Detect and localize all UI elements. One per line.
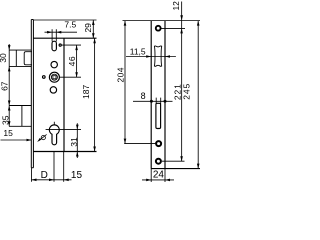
latch bolt front view: [154, 46, 161, 67]
dim 24 line: [142, 179, 174, 181]
arrows dim 35 inside: [8, 106, 11, 111]
follower outer circle: [49, 72, 59, 82]
arrows dim 24 outside: [146, 179, 151, 182]
svg-text:D: D: [41, 170, 48, 181]
svg-text:29: 29: [83, 23, 93, 33]
dim 46 extension from follower: [59, 76, 81, 78]
dim 245 line: [197, 21, 199, 169]
dim 11.5 line: [126, 56, 151, 58]
svg-text:11,5: 11,5: [130, 47, 146, 57]
dim 7.5 extension lines: [52, 29, 56, 41]
arrows dim D inside: [32, 179, 37, 182]
deadbolt slot front view: [156, 103, 161, 128]
svg-text:8: 8: [141, 91, 146, 101]
middle screw hole: [156, 141, 161, 146]
deadbolt side view: [9, 106, 32, 127]
dim 46 extension from small circle: [62, 44, 81, 46]
svg-text:7.5: 7.5: [64, 20, 76, 30]
latch slot: [52, 41, 56, 51]
dim 31 line: [76, 123, 78, 158]
right view strip bottom with 245 extension: [151, 168, 200, 170]
dim D and 15 bottom line: [32, 179, 72, 181]
svg-text:15: 15: [3, 128, 13, 138]
dim 221 line: [181, 2, 183, 162]
arrows dim 7.5 outside: [47, 31, 52, 34]
bottom extension case right: [63, 152, 65, 182]
svg-text:204: 204: [115, 67, 125, 82]
dim 204 line: [124, 21, 126, 144]
centerline through latch front: [151, 56, 176, 58]
dim 7.5 line: [45, 31, 78, 33]
faceplate side view: [31, 20, 33, 168]
case right edge: [63, 38, 65, 151]
dots dim 8: [150, 100, 153, 103]
arrows dim 204 inside: [124, 21, 127, 26]
arrows dim 31 outside: [76, 125, 79, 130]
case top edge: [33, 37, 96, 39]
dim 29 and 187 lines: [93, 20, 94, 152]
diameter symbol near keyhole: [39, 134, 47, 141]
arrows dim 29 outside: [92, 20, 95, 25]
arrow dim 15 bottom outside: [64, 179, 69, 182]
arrows dim 11.5: [146, 55, 151, 58]
svg-text:15: 15: [71, 170, 83, 181]
svg-text:30: 30: [0, 53, 8, 63]
keyhole euro profile: [49, 125, 59, 145]
svg-text:46: 46: [67, 56, 77, 66]
small circle near latch slot: [59, 44, 61, 46]
diameter leader arrow: [37, 138, 41, 142]
bottom extension cylinder axis: [53, 152, 55, 182]
right view top line with 245/204 extensions: [123, 20, 201, 22]
dim 8 line: [133, 98, 173, 104]
case bottom edge: [33, 151, 96, 153]
dim 24 extension lines: [151, 169, 165, 182]
follower inner circle: [51, 74, 57, 80]
top screw hole: [156, 26, 161, 31]
arrows dim 221 inside: [180, 28, 183, 33]
dim 12 / 221 top extension from top hole: [161, 27, 185, 29]
arrow dim 15 left: [27, 139, 32, 142]
small screw hole left of follower: [43, 76, 46, 79]
dim 30/67/35 line: [8, 44, 10, 126]
arrows dim 46 inside: [75, 45, 78, 50]
follower square spindle hole: [53, 76, 56, 79]
arrows dim 30 outside: [8, 45, 11, 50]
dim 15 left line: [1, 139, 32, 141]
svg-text:187: 187: [81, 85, 91, 99]
dim 46 line: [76, 45, 78, 77]
svg-text:35: 35: [0, 115, 10, 125]
svg-text:245: 245: [181, 83, 191, 100]
dim 221 bottom extension from bottom hole: [162, 160, 185, 162]
svg-text:67: 67: [0, 81, 9, 91]
latch bolt side view: [9, 50, 32, 66]
bottom screw hole: [156, 159, 161, 164]
hole below follower: [50, 87, 56, 93]
hole above follower: [51, 61, 57, 67]
svg-text:24: 24: [153, 169, 165, 180]
dim 31 extension from keyhole center: [46, 122, 81, 130]
arrows dim 245 inside: [197, 21, 200, 26]
right view faceplate strip: [151, 21, 165, 169]
svg-text:12: 12: [171, 1, 181, 11]
arrow dim 12 outside: [180, 15, 183, 20]
top extension line from faceplate top: [33, 19, 96, 21]
arrows dim 187 inside: [93, 38, 96, 43]
svg-text:31: 31: [69, 137, 79, 147]
arrow dim 67 bottom inside: [8, 101, 11, 106]
bottom extension faceplate left: [31, 168, 33, 182]
dim 204 bottom extension from middle hole: [124, 143, 155, 145]
